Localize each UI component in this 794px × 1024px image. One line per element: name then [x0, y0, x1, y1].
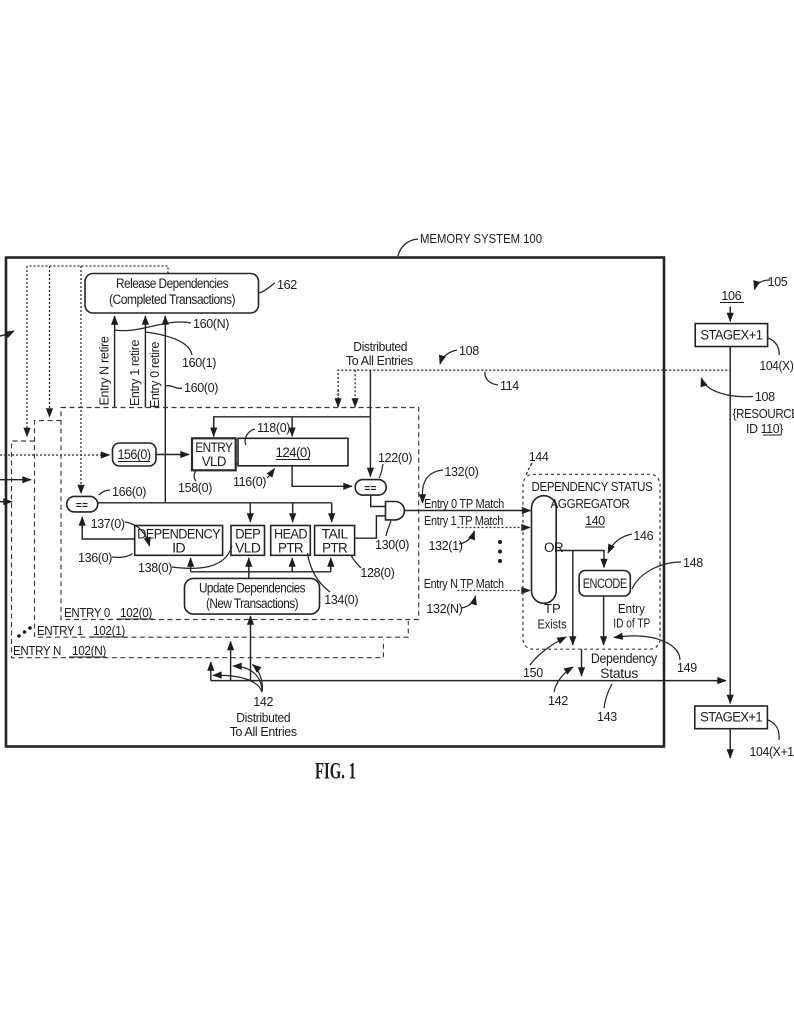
- or gate pill: [532, 496, 557, 604]
- svg-text:ID of TP: ID of TP: [613, 616, 650, 631]
- svg-text:Dependency: Dependency: [591, 651, 657, 666]
- svg-text:138(0): 138(0): [138, 561, 172, 575]
- distribution net from release box top: [27, 266, 168, 274]
- svg-text:Distributed: Distributed: [236, 711, 290, 725]
- label 166(0): [99, 490, 110, 495]
- distributed-to-all-entries wire 108/114: [338, 370, 730, 407]
- svg-text:142: 142: [548, 694, 568, 708]
- svg-text:116(0): 116(0): [233, 475, 266, 489]
- svg-text:132(N): 132(N): [426, 602, 462, 616]
- TP match output wire entry 0: [405, 510, 531, 512]
- svg-text:==: ==: [76, 500, 89, 511]
- entry 1 dashed box 102(1): [35, 421, 409, 638]
- label 148: [632, 562, 681, 589]
- svg-text:STAGEX+1: STAGEX+1: [700, 328, 762, 343]
- feed wire into entry vld and 124(0): [214, 417, 371, 437]
- entry N retire wire 160(N): [114, 316, 116, 408]
- TP match wire entry N: [458, 590, 531, 592]
- svg-text:104(X): 104(X): [760, 359, 794, 373]
- svg-text:136(0): 136(0): [78, 551, 112, 565]
- wire entry vld to 124(0): [236, 463, 238, 465]
- vertical ellipsis: [498, 540, 502, 544]
- label 108 left: [440, 350, 457, 364]
- svg-text:Entry N TP Match: Entry N TP Match: [424, 577, 504, 591]
- svg-text:132(1): 132(1): [429, 539, 463, 553]
- svg-text:TP: TP: [544, 601, 561, 616]
- svg-text:118(0): 118(0): [257, 421, 290, 435]
- svg-text:DEP: DEP: [235, 527, 261, 542]
- svg-text:156(0): 156(0): [118, 447, 151, 462]
- label 160(0): [165, 386, 182, 389]
- entry 0 dashed box 102(0): [61, 408, 419, 620]
- svg-text:TAIL: TAIL: [322, 527, 349, 542]
- entry 0 retire wire 160(0): [164, 316, 166, 503]
- label 132(1): [459, 531, 475, 544]
- svg-text:160(1): 160(1): [182, 356, 216, 370]
- label 130(0): [386, 521, 391, 536]
- wire to entry 1 top: [49, 266, 51, 417]
- feedback dependency id to 166(0): [82, 517, 135, 539]
- svg-text:==: ==: [364, 484, 377, 495]
- label 136(0): [112, 554, 133, 558]
- dep vld box 138(0): [231, 526, 265, 556]
- svg-text:ENTRY: ENTRY: [195, 440, 233, 455]
- label 114: [485, 372, 498, 386]
- label 158(0): [194, 471, 196, 482]
- svg-text:(Completed Transactions): (Completed Transactions): [109, 292, 235, 307]
- dependency status aggregator 140 dashed box: [523, 474, 660, 649]
- comparator 122(0): [355, 480, 386, 496]
- label 137(0): [125, 522, 150, 546]
- svg-text:166(0): 166(0): [112, 485, 146, 499]
- update dependencies box: [185, 578, 320, 614]
- stage x+1 box top: [695, 324, 767, 347]
- svg-text:150: 150: [523, 666, 543, 680]
- svg-text:149: 149: [677, 661, 697, 675]
- wire to comparator 166(0): [80, 266, 82, 494]
- register 124(0): [238, 438, 348, 466]
- tail ptr to gate: [355, 516, 386, 538]
- svg-text:PTR: PTR: [322, 541, 348, 556]
- stage x+1 box bottom: [695, 706, 768, 729]
- svg-text:132(0): 132(0): [444, 465, 478, 479]
- svg-text:137(0): 137(0): [91, 517, 125, 531]
- release dependencies box 162: [85, 274, 259, 314]
- input wire from left into entry N: [0, 501, 12, 503]
- label 104(X): [768, 338, 779, 355]
- svg-text:ID 110}: ID 110}: [746, 422, 783, 436]
- svg-text:146: 146: [633, 529, 653, 543]
- leader 162: [259, 283, 275, 293]
- svg-text:Release Dependencies: Release Dependencies: [116, 276, 229, 291]
- svg-text:142: 142: [253, 695, 273, 709]
- label 122(0): [379, 464, 383, 478]
- bus from 166(0) to DEP/HEAD/TAIL: [98, 502, 332, 504]
- label 146: [608, 534, 632, 553]
- svg-text:To All Entries: To All Entries: [230, 725, 297, 739]
- input wire from left into 156(0): [0, 454, 110, 456]
- svg-text:148: 148: [683, 556, 703, 570]
- svg-text:HEAD: HEAD: [274, 527, 308, 542]
- tp exists branch: [572, 551, 574, 646]
- label 128(0): [352, 556, 362, 568]
- label 105: [755, 280, 771, 290]
- label 108 right: [701, 378, 753, 397]
- svg-text:{RESOURCE: {RESOURCE: [733, 407, 794, 421]
- svg-text:108: 108: [459, 344, 479, 358]
- svg-text:114: 114: [500, 379, 519, 393]
- svg-text:140: 140: [585, 514, 605, 528]
- svg-text:128(0): 128(0): [360, 566, 394, 580]
- svg-text:122(0): 122(0): [378, 451, 412, 465]
- svg-text:ENTRY N: ENTRY N: [13, 644, 61, 658]
- dependency id box 136(0): [135, 526, 223, 556]
- wire 106 into stage: [729, 307, 731, 322]
- dots before entry 1: [17, 634, 21, 638]
- entry vld box 158(0): [192, 438, 236, 470]
- encode output: [603, 596, 605, 645]
- or output to encode: [556, 551, 604, 568]
- label 142 right: [554, 667, 573, 692]
- svg-text:134(0): 134(0): [324, 593, 358, 607]
- svg-text:104(X+1): 104(X+1): [750, 745, 794, 759]
- svg-text:108: 108: [755, 390, 775, 404]
- svg-text:ID: ID: [172, 541, 186, 556]
- update bus to row boxes: [191, 572, 331, 579]
- svg-text:Distributed: Distributed: [353, 340, 407, 354]
- TP match wire entry 1: [458, 527, 531, 529]
- memory system outer box 100: [6, 258, 664, 747]
- svg-text:162: 162: [277, 278, 297, 292]
- entry N dashed box 102(N): [12, 441, 384, 658]
- label 138(0): [172, 546, 232, 568]
- svg-text:144: 144: [529, 450, 549, 464]
- and gate 130(0): [386, 502, 405, 520]
- svg-text:160(N): 160(N): [193, 317, 229, 331]
- svg-text:DEPENDENCY: DEPENDENCY: [137, 527, 221, 542]
- svg-text:106: 106: [721, 289, 741, 303]
- svg-text:ENTRY 0: ENTRY 0: [64, 606, 110, 620]
- svg-text:FIG. 1: FIG. 1: [315, 759, 356, 784]
- label 144: [526, 463, 532, 476]
- label 116(0): [267, 469, 275, 479]
- comparator 166(0): [67, 496, 98, 512]
- wire 124(0) to comparator 122(0): [292, 466, 352, 486]
- svg-text:124(0): 124(0): [276, 445, 311, 460]
- svg-text:Entry: Entry: [618, 601, 645, 616]
- curved input arrow top left: [0, 331, 14, 336]
- svg-text:OR: OR: [544, 540, 564, 555]
- head ptr box: [271, 526, 311, 556]
- svg-text:Entry 0 retire: Entry 0 retire: [148, 342, 162, 408]
- svg-text:Exists: Exists: [538, 617, 567, 632]
- node 156(0): [113, 443, 157, 466]
- svg-text:102(1): 102(1): [93, 624, 125, 638]
- stage output wire down: [729, 347, 731, 704]
- label 132(0): [423, 470, 444, 503]
- svg-text:Entry 0 TP Match: Entry 0 TP Match: [424, 497, 504, 511]
- svg-text:STAGEX+1: STAGEX+1: [700, 710, 762, 725]
- svg-text:160(0): 160(0): [184, 381, 218, 395]
- svg-text:ENTRY 1: ENTRY 1: [37, 624, 83, 638]
- svg-text:AGGREGATOR: AGGREGATOR: [551, 497, 630, 511]
- encode box 146: [579, 571, 630, 597]
- label 160(1): [145, 332, 192, 355]
- svg-text:VLD: VLD: [202, 454, 227, 469]
- svg-text:130(0): 130(0): [375, 538, 409, 552]
- svg-text:158(0): 158(0): [178, 481, 212, 495]
- comparator 122(0) output to gate: [371, 495, 386, 506]
- label 132(N): [461, 596, 476, 608]
- tail ptr box 128(0): [315, 526, 355, 556]
- label 143: [604, 684, 612, 708]
- svg-text:MEMORY SYSTEM 100: MEMORY SYSTEM 100: [420, 231, 542, 246]
- svg-text:102(N): 102(N): [72, 644, 106, 658]
- svg-text:ENCODE: ENCODE: [583, 576, 627, 591]
- svg-text:143: 143: [597, 710, 617, 724]
- svg-text:Entry 1 retire: Entry 1 retire: [128, 340, 142, 406]
- svg-text:DEPENDENCY STATUS: DEPENDENCY STATUS: [532, 480, 653, 494]
- label 142 arcs: [253, 665, 263, 693]
- svg-text:(New Transactions): (New Transactions): [206, 596, 298, 611]
- svg-text:Entry N retire: Entry N retire: [98, 336, 112, 405]
- entry 1 retire wire 160(1): [144, 316, 146, 408]
- label 160(N): [115, 322, 191, 331]
- label MEMORY SYSTEM 100: [398, 239, 418, 256]
- svg-text:VLD: VLD: [235, 541, 261, 556]
- wire to entry N top: [26, 266, 28, 437]
- svg-text:102(0): 102(0): [120, 606, 152, 620]
- wire 156(0) to entry vld: [156, 454, 189, 456]
- label 149: [614, 636, 680, 660]
- label 104(X+1): [768, 720, 779, 740]
- wire to comparator 122(0): [369, 417, 371, 477]
- svg-text:Entry 1 TP Match: Entry 1 TP Match: [424, 514, 503, 528]
- svg-text:Update Dependencies: Update Dependencies: [199, 581, 306, 596]
- label 118(0): [245, 429, 255, 445]
- label 134(0): [308, 553, 331, 592]
- input wire from left into entry 1: [0, 479, 31, 481]
- svg-text:To All Entries: To All Entries: [346, 354, 413, 368]
- svg-text:Status: Status: [600, 666, 638, 681]
- dependency status output below aggregator: [581, 649, 583, 676]
- svg-text:PTR: PTR: [278, 541, 304, 556]
- stage bottom output: [729, 729, 731, 758]
- label 150: [530, 637, 566, 665]
- svg-text:105: 105: [768, 275, 788, 289]
- bottom distribution bus 142: [211, 680, 726, 682]
